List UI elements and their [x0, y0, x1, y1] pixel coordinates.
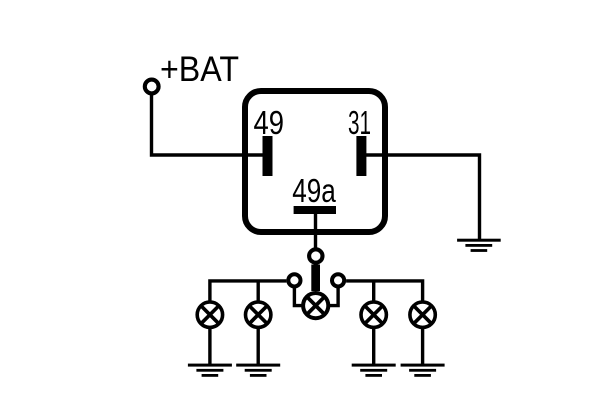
switch pivot terminal — [309, 249, 322, 262]
relay box U1 — [245, 91, 385, 232]
svg-text:+BAT: +BAT — [160, 50, 239, 89]
lamp L2 — [246, 302, 271, 327]
svg-text:49a: 49a — [292, 172, 336, 209]
wire lamp L1 to ground — [208, 326, 211, 365]
contact terminal right — [332, 274, 344, 286]
ground G4 (lamp L3) — [352, 364, 396, 377]
wire right contact to pilot lamp — [330, 286, 339, 306]
pin 49 — [263, 136, 273, 176]
wire lamp L4 to ground — [421, 326, 424, 365]
lamp L1 — [197, 302, 222, 327]
svg-text:31: 31 — [348, 104, 371, 141]
wire lamp L2 to ground — [257, 326, 260, 365]
wire pin 31 to ground — [366, 155, 480, 240]
wire right branch — [346, 281, 423, 303]
ground G2 (lamp L1) — [188, 364, 232, 377]
terminal +BAT — [145, 80, 159, 94]
pin 31 — [356, 136, 366, 176]
lamp L3 — [361, 302, 386, 327]
wire lamp L3 to ground — [372, 326, 375, 365]
ground G3 (lamp L2) — [236, 364, 280, 377]
pin 49a — [294, 206, 336, 214]
wire left contact to pilot lamp — [294, 286, 302, 306]
ground G5 (lamp L4) — [401, 364, 445, 377]
pilot lamp L5 — [303, 293, 328, 318]
ground G1 (right) — [457, 239, 501, 252]
wire lamp L3 drop — [372, 281, 375, 303]
lamp L4 — [410, 302, 435, 327]
switch contact arm — [311, 265, 320, 292]
wire lamp L2 drop — [257, 281, 260, 303]
wire pin 49a to switch pivot — [314, 214, 317, 250]
wire left branch — [210, 281, 287, 303]
svg-text:49: 49 — [254, 104, 285, 141]
contact terminal left — [288, 274, 300, 286]
wire +BAT to pin 49 — [152, 95, 264, 156]
